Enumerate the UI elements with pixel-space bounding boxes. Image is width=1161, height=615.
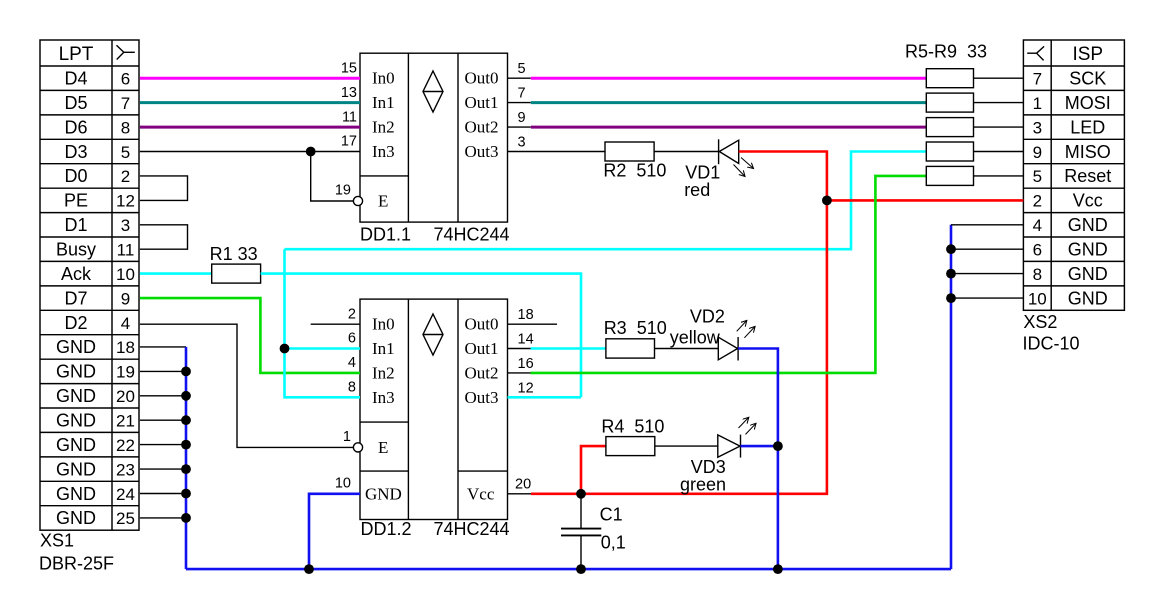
junction bus DD1.2 GND: [304, 564, 314, 574]
DD1.2 input label In1: [372, 339, 395, 358]
svg-text:6: 6: [121, 70, 130, 89]
junction XS2 GND row 8: [946, 269, 956, 279]
op-amp buffer DD1.1 body 74HC244: [360, 53, 508, 222]
svg-text:IDC-10: IDC-10: [1023, 334, 1080, 354]
stub DD1.2 In0 pin 2: [311, 323, 360, 325]
wire DD1.2 Out1 to resistor R3, cyan: [531, 347, 606, 350]
R4 value label R4 510: [601, 417, 664, 437]
svg-text:LPT: LPT: [59, 44, 94, 65]
svg-text:In0: In0: [372, 69, 395, 88]
wire R1 to DD1.2 Out3 net, cyan: [261, 274, 581, 398]
svg-text:D7: D7: [64, 288, 87, 308]
svg-text:GND: GND: [56, 386, 96, 406]
svg-text:6: 6: [1033, 241, 1042, 260]
wire VD3 cathode to GND bus, blue: [741, 445, 778, 448]
wire VD2 cathode to GND bus, blue: [738, 349, 778, 570]
wire R8 to XS2: [974, 151, 1024, 153]
XS1 pin 11 label Busy: [56, 240, 134, 260]
DD1.1 output pin number 9: [518, 110, 526, 126]
XS1 pin 19 label GND: [56, 362, 135, 382]
junction GND pin 22: [181, 464, 191, 474]
DD1.2 output pin number 18: [518, 307, 534, 323]
svg-text:17: 17: [341, 134, 357, 150]
svg-text:10: 10: [335, 475, 351, 491]
wire R2 to LED VD1: [654, 151, 719, 153]
resistor R1: [212, 264, 261, 283]
wire Ack (pin10) to resistor R1, cyan: [140, 272, 212, 275]
XS1 pin 20 label GND: [56, 386, 135, 406]
XS1 pin 25 label GND: [56, 508, 135, 528]
DD1.2 enable inversion bubble pin 1: [353, 443, 362, 452]
svg-text:74HC244: 74HC244: [434, 225, 510, 245]
DD1.1 part number 74HC244: [434, 225, 510, 245]
svg-text:3: 3: [518, 135, 526, 151]
LED VD3 (green), cathode right: [718, 417, 756, 457]
resistor R4: [606, 437, 655, 456]
LED VD1 (red), cathode left: [719, 139, 754, 176]
wire GND stub XS2 pin 10: [951, 297, 1023, 299]
DD1.2 Vcc pin number 20: [515, 476, 531, 492]
connector XS1 table frame: [40, 40, 139, 530]
svg-text:D3: D3: [64, 142, 87, 162]
R2 value label R2 510: [603, 160, 666, 180]
XS2 header label ISP: [1072, 44, 1103, 65]
wire D4 (LPT pin6) to DD1.1 In0, magenta: [140, 77, 360, 80]
wire DD1.2 Out2 to Reset resistor, green: [531, 176, 927, 373]
junction bus LEDs: [773, 564, 783, 574]
svg-text:16: 16: [518, 356, 534, 372]
svg-text:18: 18: [116, 338, 135, 357]
wire DD1.1 Out3 pin 3 to resistor R2: [508, 151, 606, 153]
svg-text:In0: In0: [372, 315, 395, 334]
svg-text:GND: GND: [1068, 215, 1108, 235]
DD1.2 reference designator: [361, 519, 412, 539]
svg-text:10: 10: [1028, 289, 1047, 308]
DD1.2 input label In2: [372, 363, 395, 382]
wire R3 to LED VD2: [655, 348, 719, 350]
svg-text:In2: In2: [372, 118, 395, 137]
svg-text:GND: GND: [56, 484, 96, 504]
junction bus C1: [576, 564, 586, 574]
DD1.1 input pin number 13: [341, 85, 357, 101]
wire GND stub LPT pin 20: [140, 419, 186, 421]
svg-text:VD2: VD2: [690, 306, 725, 326]
DD1.1 output pin number 3: [518, 135, 526, 151]
DD1.1 output label Out0: [465, 69, 499, 88]
wire GND stub XS2 pin 6: [951, 248, 1023, 250]
svg-text:D6: D6: [64, 117, 87, 137]
XS1 pin 9 label D7: [64, 288, 130, 308]
DD1.1 output pin number 7: [518, 86, 526, 102]
svg-text:24: 24: [116, 485, 135, 504]
svg-text:21: 21: [116, 412, 135, 431]
DD1.2 output label Out3: [465, 388, 499, 407]
wire DD1.1 Out0 stub: [508, 77, 531, 79]
R3 value label R3 510: [604, 318, 667, 338]
svg-text:7: 7: [121, 94, 130, 113]
XS1 reference designator: [40, 531, 74, 551]
XS2 pin 1 label MOSI: [1033, 93, 1111, 113]
svg-text:R4 510: R4 510: [601, 417, 664, 437]
svg-text:In2: In2: [372, 363, 395, 382]
DD1.1 input pin number 17: [341, 134, 357, 150]
GND bus vertical from LPT, blue: [185, 347, 188, 569]
resistor R8: [926, 142, 973, 161]
resistor R9: [926, 166, 973, 185]
DD1.1 output label Out1: [465, 93, 499, 112]
DD1.2 input pin number 6: [348, 331, 356, 347]
svg-text:D1: D1: [64, 215, 87, 235]
DD1.1 enable label E: [378, 192, 388, 211]
DD1.1 enable inversion bubble pin 19: [353, 196, 362, 205]
XS1 pin 5 label D3: [64, 142, 130, 162]
DD1.2 driver diamond symbol: [423, 314, 443, 355]
wire MISO net horizontal, cyan: [285, 152, 927, 250]
svg-text:In1: In1: [372, 93, 395, 112]
svg-text:red: red: [684, 180, 710, 200]
wire GND stub XS2 pin 8: [951, 273, 1023, 275]
XS1 pin 10 label Ack: [61, 264, 135, 284]
svg-text:R3 510: R3 510: [604, 318, 667, 338]
XS1 pin 2 label D0: [64, 166, 130, 186]
DD1.1 enable pin number 19: [335, 183, 351, 199]
DD1.2 output label Out1: [465, 339, 499, 358]
XS1 pin 22 label GND: [56, 435, 135, 455]
svg-text:In1: In1: [372, 339, 395, 358]
DD1.1 input label In0: [372, 69, 395, 88]
DD1.1 output label Out2: [465, 118, 499, 137]
VD2 reference label: [690, 306, 725, 326]
XS2 pin 6 label GND: [1033, 240, 1108, 260]
LED VD2 (yellow), cathode right: [718, 320, 755, 360]
svg-text:Ack: Ack: [61, 264, 92, 284]
wire D2 (pin4) to DD1.2 enable pin 1: [140, 324, 353, 447]
svg-text:7: 7: [518, 86, 526, 102]
svg-text:D2: D2: [64, 313, 87, 333]
svg-text:R1 33: R1 33: [210, 244, 258, 264]
wire branch to DD1.2 In1 pin 6, cyan: [285, 347, 361, 350]
DD1.2 input pin number 2: [348, 306, 356, 322]
XS1 header connector pin symbol: [117, 45, 135, 59]
resistor R2: [605, 142, 654, 161]
svg-text:In3: In3: [372, 388, 395, 407]
XS2 pin 10 label GND: [1028, 288, 1108, 308]
DD1.2 enable pin number 1: [343, 429, 351, 445]
junction GND pin 21: [181, 440, 191, 450]
svg-text:23: 23: [116, 460, 135, 479]
XS2 pin 3 label LED: [1033, 117, 1106, 137]
svg-text:22: 22: [116, 436, 135, 455]
svg-text:Out3: Out3: [465, 142, 499, 161]
svg-text:18: 18: [518, 307, 534, 323]
XS2 pin 2 label Vcc: [1033, 191, 1103, 211]
DD1.2 part number 74HC244: [434, 519, 510, 539]
svg-text:Out3: Out3: [465, 388, 499, 407]
junction GND pin 24: [181, 513, 191, 523]
svg-text:25: 25: [116, 509, 135, 528]
XS2 header connector pin symbol: [1027, 46, 1044, 60]
svg-text:R5-R9 33: R5-R9 33: [905, 42, 987, 62]
svg-text:XS1: XS1: [40, 531, 74, 551]
svg-text:8: 8: [1033, 265, 1042, 284]
VD3 reference label: [691, 457, 726, 477]
DD1.2 input label In0: [372, 315, 395, 334]
VD1 reference label: [685, 162, 720, 182]
DD1.2 GND pin label: [365, 484, 402, 503]
junction GND pin 20: [181, 415, 191, 425]
svg-text:4: 4: [121, 314, 130, 333]
wire VD1 anode to Vcc rail, red: [531, 152, 827, 494]
svg-text:DBR-25F: DBR-25F: [39, 554, 114, 574]
XS1 pin 3 label D1: [64, 215, 130, 235]
wire DD1.1 Out1 stub: [508, 102, 531, 104]
svg-text:4: 4: [348, 355, 356, 371]
svg-text:10: 10: [116, 265, 135, 284]
wire DD1.2 Out2 pin 16 stub: [508, 372, 531, 374]
GND bus vertical to XS2, blue: [950, 225, 953, 569]
svg-text:5: 5: [518, 61, 526, 77]
svg-text:GND: GND: [1068, 240, 1108, 260]
wire D3 (LPT pin5) to DD1.1 In3: [140, 151, 360, 153]
DD1.1 input label In2: [372, 118, 395, 137]
wire GND stub LPT pin 21: [140, 444, 186, 446]
svg-text:Out1: Out1: [465, 93, 499, 112]
junction XS2 GND row 9: [946, 293, 956, 303]
svg-text:7: 7: [1033, 70, 1042, 89]
resistor R5: [926, 69, 973, 88]
svg-text:MOSI: MOSI: [1065, 93, 1111, 113]
wire loop D0 (pin2) to PE (pin12): [140, 176, 188, 201]
svg-text:GND: GND: [56, 435, 96, 455]
wire DD1.2 GND pin 10 to bus, blue: [309, 494, 360, 569]
svg-text:3: 3: [121, 216, 130, 235]
svg-text:SCK: SCK: [1069, 69, 1106, 89]
resistor R3: [606, 339, 655, 358]
DD1.2 GND pin number 10: [335, 475, 351, 491]
wire R7 to XS2: [974, 126, 1024, 128]
DD1.1 output pin number 5: [518, 61, 526, 77]
svg-text:6: 6: [348, 331, 356, 347]
svg-text:E: E: [378, 438, 388, 457]
svg-text:4: 4: [1033, 216, 1042, 235]
XS1 pin 7 label D5: [64, 93, 130, 113]
junction Vcc to XS2: [822, 196, 832, 206]
wire GND stub LPT pin 18: [140, 346, 186, 348]
DD1.2 output pin number 14: [518, 332, 534, 348]
XS1 pin 21 label GND: [56, 411, 135, 431]
junction XS2 GND row 7: [946, 244, 956, 254]
wire D5 (LPT pin7) to DD1.1 In1, teal: [140, 101, 360, 104]
DD1.1 reference designator: [360, 225, 411, 245]
C1 reference label: [600, 504, 623, 524]
svg-text:2: 2: [348, 306, 356, 322]
svg-text:C1: C1: [600, 504, 623, 524]
resistor R6: [926, 93, 973, 112]
DD1.1 input label In1: [372, 93, 395, 112]
wire Vcc branch to resistor R4, red: [581, 446, 606, 494]
wire GND stub LPT pin 23: [140, 493, 186, 495]
DD1.2 input pin number 8: [348, 380, 356, 396]
wire R4 to LED VD3: [655, 445, 718, 447]
svg-text:Out1: Out1: [465, 339, 499, 358]
DD1.2 output pin number 16: [518, 356, 534, 372]
junction GND pin 23: [181, 489, 191, 499]
op-amp buffer DD1.2 body 74HC244: [360, 299, 508, 519]
wire DD1.2 Vcc pin 20 stub: [508, 493, 532, 495]
VD1 color label red: [684, 180, 710, 200]
junction D3/E1 branch: [306, 147, 316, 157]
svg-text:1: 1: [343, 429, 351, 445]
XS1 type DBR-25F: [39, 554, 114, 574]
svg-text:8: 8: [348, 380, 356, 396]
XS1 pin 6 label D4: [64, 69, 130, 89]
XS2 pin 7 label SCK: [1033, 69, 1107, 89]
wire R9 to XS2: [974, 175, 1024, 177]
capacitor C1: [561, 494, 601, 569]
XS1 pin 8 label D6: [64, 117, 130, 137]
wire DD1.1 Out2 stub: [508, 126, 531, 128]
C1 value label 0,1: [601, 532, 626, 552]
DD1.2 enable label E: [378, 438, 388, 457]
svg-text:GND: GND: [56, 459, 96, 479]
svg-text:0,1: 0,1: [601, 532, 626, 552]
resistor group label R5-R9 33: [905, 42, 987, 62]
wire Vcc rail to XS2 pin 2, red: [827, 199, 1024, 202]
VD2 color label yellow: [670, 328, 721, 348]
svg-text:5: 5: [1033, 167, 1042, 186]
svg-text:yellow: yellow: [670, 328, 721, 348]
svg-text:8: 8: [121, 118, 130, 137]
svg-text:5: 5: [121, 143, 130, 162]
DD1.2 input pin number 4: [348, 355, 356, 371]
svg-text:20: 20: [515, 476, 531, 492]
junction VD3 to blue vertical: [773, 441, 783, 451]
svg-text:15: 15: [341, 60, 357, 76]
junction GND pin 19: [181, 391, 191, 401]
svg-text:9: 9: [518, 110, 526, 126]
svg-text:Reset: Reset: [1064, 166, 1111, 186]
wire GND stub XS2 pin 4: [951, 224, 1023, 226]
svg-text:GND: GND: [1068, 288, 1108, 308]
svg-text:74HC244: 74HC244: [434, 519, 510, 539]
svg-text:13: 13: [341, 85, 357, 101]
svg-text:19: 19: [116, 363, 135, 382]
resistor R7: [926, 118, 973, 137]
wire DD1.2 Out1 pin 14 stub: [508, 348, 531, 350]
DD1.1 output label Out3: [465, 142, 499, 161]
junction cyan In1 branch: [280, 344, 290, 354]
XS2 pin 5 label Reset: [1033, 166, 1112, 186]
wire GND stub LPT pin 18: [140, 370, 186, 372]
svg-text:12: 12: [116, 192, 135, 211]
svg-text:green: green: [680, 475, 726, 495]
svg-text:2: 2: [121, 167, 130, 186]
wire branch D3 to DD1.1 enable pin 19: [311, 152, 354, 202]
svg-text:MISO: MISO: [1065, 142, 1111, 162]
svg-text:GND: GND: [56, 411, 96, 431]
svg-text:Out0: Out0: [465, 315, 499, 334]
GND bus bottom horizontal, blue: [186, 568, 951, 571]
XS2 type IDC-10: [1023, 334, 1080, 354]
DD1.2 input label In3: [372, 388, 395, 407]
svg-text:12: 12: [518, 380, 534, 396]
VD3 color label green: [680, 475, 726, 495]
DD1.2 output label Out0: [465, 315, 499, 334]
wire GND stub LPT pin 19: [140, 395, 186, 397]
svg-text:2: 2: [1033, 192, 1042, 211]
svg-text:D0: D0: [64, 166, 87, 186]
wire DD1.2 Out0 pin 18 stub: [508, 323, 558, 325]
XS1 pin 23 label GND: [56, 459, 135, 479]
XS2 pin 4 label GND: [1033, 215, 1108, 235]
svg-text:GND: GND: [365, 484, 402, 503]
svg-text:DD1.2: DD1.2: [361, 519, 412, 539]
DD1.2 output pin number 12: [518, 380, 534, 396]
svg-text:In3: In3: [372, 142, 395, 161]
XS1 pin 24 label GND: [56, 484, 135, 504]
junction Vcc/C1/R4: [576, 489, 586, 499]
XS1 pin 18 label GND: [56, 337, 135, 357]
wire R5 to XS2: [974, 77, 1024, 79]
R1 value label R1 33: [210, 244, 258, 264]
wire GND stub LPT pin 22: [140, 468, 186, 470]
svg-text:GND: GND: [56, 508, 96, 528]
svg-text:9: 9: [121, 289, 130, 308]
svg-text:Vcc: Vcc: [467, 484, 495, 503]
wire R6 to XS2: [974, 102, 1024, 104]
svg-text:PE: PE: [64, 191, 88, 211]
wire loop D1 (pin3) to Busy (pin11): [140, 225, 188, 249]
XS2 pin 8 label GND: [1033, 264, 1108, 284]
XS2 reference designator: [1023, 312, 1057, 332]
junction GND pin 18: [181, 367, 191, 377]
wire MISO net vertical to DD1.2 inputs, cyan: [285, 249, 361, 397]
DD1.1 input pin number 15: [341, 60, 357, 76]
connector XS2 table frame: [1023, 40, 1124, 310]
XS1 pin 12 label PE: [64, 191, 135, 211]
XS1 pin 4 label D2: [64, 313, 130, 333]
DD1.1 input label In3: [372, 142, 395, 161]
svg-text:GND: GND: [56, 362, 96, 382]
svg-text:Vcc: Vcc: [1073, 191, 1103, 211]
wire D6 (LPT pin8) to DD1.1 In2, purple: [140, 126, 360, 129]
svg-text:9: 9: [1033, 143, 1042, 162]
svg-text:11: 11: [342, 109, 357, 125]
svg-text:ISP: ISP: [1072, 44, 1103, 65]
svg-text:1: 1: [1033, 94, 1042, 113]
svg-text:D5: D5: [64, 93, 87, 113]
svg-text:R2 510: R2 510: [603, 160, 666, 180]
svg-text:3: 3: [1033, 118, 1042, 137]
wire DD1.2 Out3 pin 12 to vertical, cyan: [508, 396, 582, 399]
svg-text:XS2: XS2: [1023, 312, 1057, 332]
svg-text:11: 11: [117, 241, 135, 260]
wire D7 (pin9) to DD1.2 In2, green: [140, 298, 360, 373]
svg-text:LED: LED: [1070, 117, 1105, 137]
DD1.2 Vcc pin label: [467, 484, 495, 503]
XS2 pin 9 label MISO: [1033, 142, 1111, 162]
svg-text:DD1.1: DD1.1: [360, 225, 411, 245]
DD1.1 driver diamond symbol: [423, 71, 443, 112]
svg-text:Out2: Out2: [465, 363, 499, 382]
svg-text:Out2: Out2: [465, 118, 499, 137]
svg-text:14: 14: [518, 332, 534, 348]
wire DD1.1 Out2 to resistor network: [531, 126, 927, 129]
DD1.2 output label Out2: [465, 363, 499, 382]
wire DD1.1 Out0 to resistor network: [531, 77, 927, 80]
svg-text:GND: GND: [56, 337, 96, 357]
svg-text:E: E: [378, 192, 388, 211]
